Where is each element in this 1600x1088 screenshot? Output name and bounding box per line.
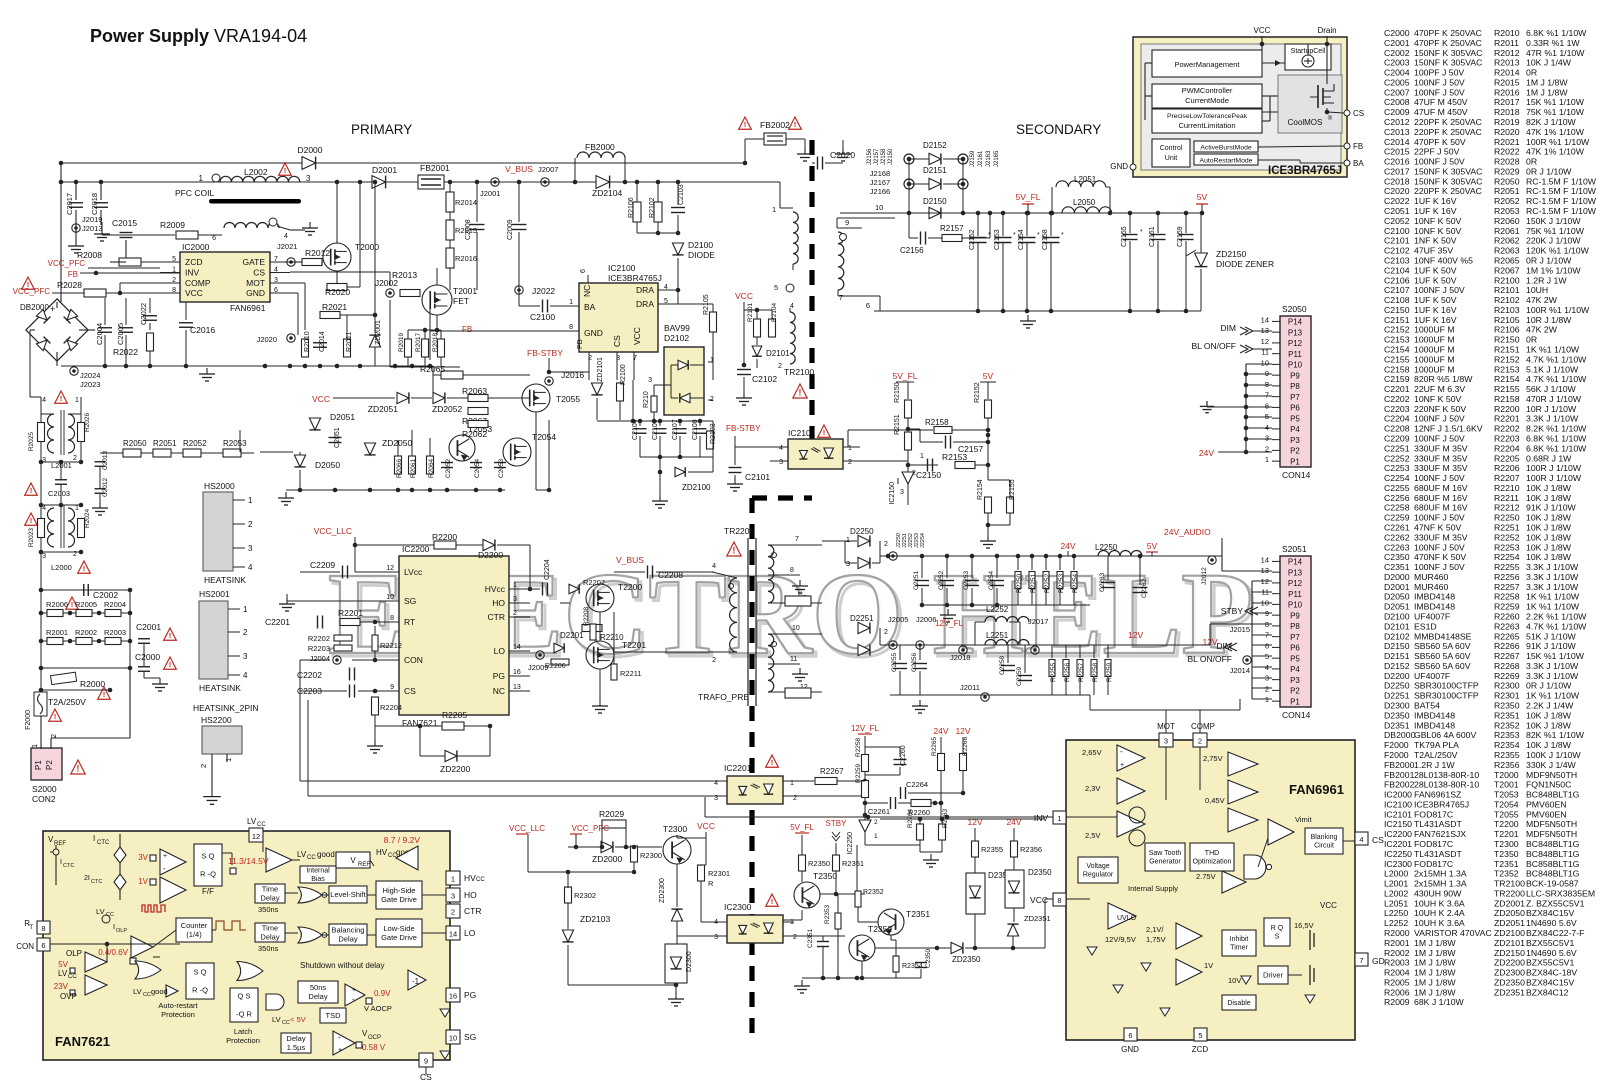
svg-text:28L0138-80R-10: 28L0138-80R-10 <box>1414 780 1479 790</box>
svg-text:IMBD4148: IMBD4148 <box>1414 710 1455 720</box>
svg-text:Blanking: Blanking <box>1311 834 1338 841</box>
svg-text:R2206: R2206 <box>1494 463 1520 473</box>
svg-text:1: 1 <box>513 582 517 589</box>
svg-text:3: 3 <box>779 459 783 466</box>
svg-text:2x15MH 1.3A: 2x15MH 1.3A <box>1414 879 1467 889</box>
svg-text:R2103: R2103 <box>1494 305 1520 315</box>
svg-text:BC848BLT1G: BC848BLT1G <box>1526 869 1580 879</box>
svg-text:1: 1 <box>848 445 852 452</box>
svg-text:C2012: C2012 <box>1384 117 1410 127</box>
svg-text:HS2000: HS2000 <box>204 481 235 491</box>
svg-text:FAN6961: FAN6961 <box>230 303 266 313</box>
svg-text:FAN6961SZ: FAN6961SZ <box>1414 790 1462 800</box>
svg-text:1: 1 <box>1265 695 1269 704</box>
svg-text:C2053: C2053 <box>498 458 505 478</box>
svg-text:P1: P1 <box>34 760 43 770</box>
svg-text:Unit: Unit <box>1165 155 1178 162</box>
svg-text:680UF M 16V: 680UF M 16V <box>1414 483 1468 493</box>
svg-text:GD: GD <box>1372 956 1385 966</box>
svg-text:C2052: C2052 <box>445 458 452 478</box>
svg-text:Disable: Disable <box>1227 1000 1250 1007</box>
svg-text:SB560 5A 60V: SB560 5A 60V <box>1414 641 1471 651</box>
svg-text:Internal: Internal <box>306 868 330 875</box>
svg-text:!: ! <box>30 486 33 495</box>
svg-text:R2012: R2012 <box>305 248 330 258</box>
svg-text:10UH K 3.6A: 10UH K 3.6A <box>1414 918 1465 928</box>
svg-text:470PF K 50V: 470PF K 50V <box>1414 137 1466 147</box>
svg-text:FB2002: FB2002 <box>760 120 790 130</box>
svg-text:R2152: R2152 <box>1494 354 1520 364</box>
svg-text:RC-1.5M F 1/10W: RC-1.5M F 1/10W <box>1526 206 1597 216</box>
svg-text:R2017: R2017 <box>415 332 422 352</box>
svg-text:P13: P13 <box>1288 328 1303 337</box>
svg-text:1M J 1/8W: 1M J 1/8W <box>1414 977 1456 987</box>
svg-text:C2150: C2150 <box>1384 305 1410 315</box>
svg-text:C2350: C2350 <box>925 948 932 968</box>
svg-text:ZD2104: ZD2104 <box>592 188 623 198</box>
svg-text:P5: P5 <box>1290 414 1300 423</box>
svg-text:R2251: R2251 <box>1494 523 1520 533</box>
svg-text:R2255: R2255 <box>1050 662 1057 682</box>
svg-text:R2014: R2014 <box>1494 68 1520 78</box>
svg-text:C2154: C2154 <box>1384 344 1410 354</box>
svg-text:L2251: L2251 <box>986 631 1009 640</box>
svg-text:ZD2050: ZD2050 <box>1494 908 1525 918</box>
svg-text:Regulator: Regulator <box>1083 872 1114 879</box>
svg-text:4: 4 <box>42 397 46 404</box>
svg-text:ZD2001: ZD2001 <box>375 320 382 345</box>
svg-text:C2102: C2102 <box>752 374 777 384</box>
svg-text:D2351: D2351 <box>1384 720 1410 730</box>
svg-text:14: 14 <box>449 930 457 939</box>
svg-text:R2210: R2210 <box>1494 483 1520 493</box>
svg-text:C2022: C2022 <box>1384 196 1410 206</box>
svg-text:R2016: R2016 <box>455 254 477 263</box>
svg-text:4: 4 <box>790 303 794 310</box>
svg-text:!: ! <box>799 388 802 398</box>
svg-text:R2029: R2029 <box>1494 166 1520 176</box>
svg-text:BZX84C15V: BZX84C15V <box>1526 977 1574 987</box>
svg-text:10R J 1/10W: 10R J 1/10W <box>1526 404 1577 414</box>
svg-text:1.5µs: 1.5µs <box>287 1043 306 1052</box>
svg-text:28L0138-80R-10: 28L0138-80R-10 <box>1414 770 1479 780</box>
svg-text:0R J 1/10W: 0R J 1/10W <box>1526 166 1572 176</box>
svg-text:ICE3BR4765J: ICE3BR4765J <box>1268 165 1342 177</box>
svg-text:C2017: C2017 <box>1384 166 1410 176</box>
svg-text:VCC: VCC <box>1320 901 1337 910</box>
svg-text:VCC: VCC <box>312 394 330 404</box>
svg-text:Time: Time <box>262 885 278 894</box>
svg-text:C2253: C2253 <box>1384 463 1410 473</box>
svg-text:4: 4 <box>243 671 248 680</box>
svg-text:BC848BLT1G: BC848BLT1G <box>1526 849 1580 859</box>
svg-text:GBL06 4A 600V: GBL06 4A 600V <box>1414 730 1477 740</box>
svg-text:PG: PG <box>493 671 505 681</box>
svg-text:4.7K %1 1/10W: 4.7K %1 1/10W <box>1526 354 1587 364</box>
svg-text:1: 1 <box>451 875 455 884</box>
svg-text:100NF J 50V: 100NF J 50V <box>1414 157 1465 167</box>
svg-text:S2000: S2000 <box>32 784 57 794</box>
svg-text:R2353: R2353 <box>824 904 831 924</box>
svg-text:SB560 5A 60V: SB560 5A 60V <box>1414 651 1471 661</box>
svg-text:R2300: R2300 <box>640 851 662 860</box>
svg-text:9: 9 <box>845 218 849 227</box>
svg-text:3.3K J 1/10W: 3.3K J 1/10W <box>1526 661 1579 671</box>
svg-text:R2022: R2022 <box>113 347 138 357</box>
svg-text:220PF K 250VAC: 220PF K 250VAC <box>1414 186 1482 196</box>
svg-text:220PF K 250VAC: 220PF K 250VAC <box>1414 117 1482 127</box>
svg-text:C2009: C2009 <box>1384 107 1410 117</box>
svg-text:R2063: R2063 <box>462 386 487 396</box>
svg-text:UF4007F: UF4007F <box>1414 671 1450 681</box>
svg-text:VCC_PFC: VCC_PFC <box>13 287 51 296</box>
svg-text:D2151: D2151 <box>923 166 947 175</box>
svg-text:AutoRestartMode: AutoRestartMode <box>1200 158 1253 165</box>
svg-text:P14: P14 <box>1288 558 1303 567</box>
svg-text:C2263: C2263 <box>1099 572 1106 592</box>
svg-text:100NF J 50V: 100NF J 50V <box>1414 473 1465 483</box>
svg-text:10K J 1/8W: 10K J 1/8W <box>1526 483 1572 493</box>
svg-text:R2201: R2201 <box>1494 414 1520 424</box>
svg-text:C2100: C2100 <box>1384 226 1410 236</box>
svg-text:LV: LV <box>133 987 142 996</box>
svg-text:C2264: C2264 <box>906 780 928 789</box>
svg-text:Balancing: Balancing <box>332 926 365 935</box>
svg-text:1UF K 16V: 1UF K 16V <box>1414 315 1457 325</box>
svg-text:C2004: C2004 <box>1384 68 1410 78</box>
svg-text:+: + <box>50 304 55 314</box>
svg-text:C2151: C2151 <box>1384 315 1410 325</box>
svg-text:R2269: R2269 <box>1494 671 1520 681</box>
svg-text:R2267: R2267 <box>1494 651 1520 661</box>
svg-text:BZX84C12: BZX84C12 <box>1526 987 1569 997</box>
svg-text:R2212: R2212 <box>1494 503 1520 513</box>
svg-text:good: good <box>151 987 168 996</box>
svg-text:PG: PG <box>464 990 476 1000</box>
svg-text:1UF K 16V: 1UF K 16V <box>1414 196 1457 206</box>
svg-text:D2102: D2102 <box>1384 631 1410 641</box>
svg-text:C2204: C2204 <box>544 559 551 580</box>
svg-text:!: ! <box>771 897 774 906</box>
svg-text:T2000: T2000 <box>1494 770 1519 780</box>
svg-text:SBR30100CTFP: SBR30100CTFP <box>1414 691 1479 701</box>
svg-text:IC2300: IC2300 <box>724 902 752 912</box>
svg-text:ZD2101: ZD2101 <box>1494 938 1525 948</box>
svg-text:RC-1.5M F 1/10W: RC-1.5M F 1/10W <box>1526 186 1597 196</box>
svg-text:C2154: C2154 <box>1018 229 1025 250</box>
svg-text:!: ! <box>169 660 172 669</box>
svg-text:R2012: R2012 <box>1494 48 1520 58</box>
svg-text:12: 12 <box>1261 337 1269 346</box>
svg-text:1: 1 <box>243 605 248 614</box>
svg-text:IC2101: IC2101 <box>788 428 816 438</box>
svg-text:R2002: R2002 <box>1384 948 1410 958</box>
svg-text:IC2150: IC2150 <box>1384 819 1412 829</box>
svg-text:C2051: C2051 <box>1384 206 1410 216</box>
svg-text:47NF K 50V: 47NF K 50V <box>1414 523 1462 533</box>
svg-text:16: 16 <box>513 669 521 676</box>
svg-text:R2004: R2004 <box>104 600 126 609</box>
svg-text:R2051: R2051 <box>153 439 177 448</box>
svg-text:4: 4 <box>284 233 288 240</box>
svg-text:10R J 1/8W: 10R J 1/8W <box>1526 315 1572 325</box>
svg-text:R2210: R2210 <box>600 633 624 642</box>
svg-text:R2022: R2022 <box>1494 147 1520 157</box>
svg-text:8: 8 <box>1265 380 1269 389</box>
svg-text:4.7K %1 1/10W: 4.7K %1 1/10W <box>1526 374 1587 384</box>
svg-text:*: * <box>988 232 991 239</box>
svg-text:10UH K 2.4A: 10UH K 2.4A <box>1414 908 1465 918</box>
svg-text:PMV60EN: PMV60EN <box>1526 799 1567 809</box>
svg-text:INV: INV <box>185 268 200 278</box>
svg-text:C2208: C2208 <box>1384 424 1410 434</box>
svg-text:FQN1N50C: FQN1N50C <box>1526 780 1571 790</box>
svg-text:T2200: T2200 <box>1494 819 1519 829</box>
svg-text:C2103: C2103 <box>678 184 685 205</box>
svg-text:C2252: C2252 <box>938 570 945 590</box>
svg-text:C2101: C2101 <box>1384 236 1410 246</box>
svg-text:-1: -1 <box>412 977 420 986</box>
svg-text:DB2000: DB2000 <box>1384 730 1416 740</box>
svg-text:0.58 V: 0.58 V <box>362 1043 386 1052</box>
svg-text:D2251: D2251 <box>1384 691 1410 701</box>
svg-text:Time: Time <box>262 924 278 933</box>
svg-text:*: * <box>1061 232 1064 239</box>
svg-text:L2252: L2252 <box>1384 918 1408 928</box>
svg-text:C2000: C2000 <box>1384 28 1410 38</box>
svg-text:J2014: J2014 <box>1230 666 1250 675</box>
svg-text:J2013: J2013 <box>82 224 102 233</box>
svg-text:ZD2351: ZD2351 <box>1024 914 1051 923</box>
svg-text:T2351: T2351 <box>1494 859 1519 869</box>
svg-text:P2: P2 <box>45 760 54 770</box>
svg-text:C2104: C2104 <box>1384 265 1410 275</box>
svg-text:ZD2101: ZD2101 <box>597 357 604 382</box>
svg-text:14: 14 <box>1261 555 1269 564</box>
svg-text:1K %1 1/10W: 1K %1 1/10W <box>1526 344 1580 354</box>
svg-text:C2204: C2204 <box>1384 414 1410 424</box>
svg-text:7: 7 <box>795 536 799 543</box>
svg-text:!: ! <box>103 690 106 699</box>
svg-text:R2259: R2259 <box>1106 662 1113 682</box>
svg-text:Circuit: Circuit <box>1314 843 1334 850</box>
svg-text:82K %1 1/10W: 82K %1 1/10W <box>1526 730 1585 740</box>
svg-text:FOD817C: FOD817C <box>1414 809 1453 819</box>
svg-text:13: 13 <box>513 684 521 691</box>
svg-text:D2101: D2101 <box>766 349 790 358</box>
svg-text:HEATSINK_2PIN: HEATSINK_2PIN <box>193 703 259 713</box>
svg-text:C2155: C2155 <box>1384 354 1410 364</box>
svg-text:R2017: R2017 <box>1494 97 1520 107</box>
svg-text:12V: 12V <box>955 726 970 736</box>
svg-text:C2203: C2203 <box>1384 404 1410 414</box>
svg-text:220K J 1/10W: 220K J 1/10W <box>1526 236 1581 246</box>
svg-text:100NF J 50V: 100NF J 50V <box>1414 433 1465 443</box>
svg-text:1: 1 <box>32 744 39 748</box>
svg-text:FB2000: FB2000 <box>1384 760 1415 770</box>
svg-text:1000UF M: 1000UF M <box>1414 325 1455 335</box>
svg-text:R -Q: R -Q <box>192 986 208 995</box>
svg-text:1V: 1V <box>138 877 148 886</box>
svg-text:R2265: R2265 <box>931 736 938 756</box>
svg-text:BZX84C-18V: BZX84C-18V <box>1526 968 1577 978</box>
svg-text:15K %1 1/10W: 15K %1 1/10W <box>1526 651 1585 661</box>
svg-text:3: 3 <box>513 596 517 603</box>
svg-text:T2350: T2350 <box>1494 849 1519 859</box>
svg-text:2: 2 <box>513 610 517 617</box>
svg-text:R2020: R2020 <box>1494 127 1520 137</box>
svg-text:R2011: R2011 <box>1494 38 1519 48</box>
svg-text:FAN6961: FAN6961 <box>1289 782 1344 797</box>
svg-text:J2012: J2012 <box>1201 567 1208 585</box>
svg-text:J2017: J2017 <box>1028 617 1048 626</box>
svg-text:HEATSINK: HEATSINK <box>199 683 241 693</box>
svg-text:C2052: C2052 <box>1384 216 1410 226</box>
svg-text:P8: P8 <box>1290 382 1300 391</box>
svg-text:2.75V: 2.75V <box>1196 872 1216 881</box>
svg-text:Gate Drive: Gate Drive <box>381 895 417 904</box>
svg-text:TR2100: TR2100 <box>1494 879 1525 889</box>
svg-text:R2024: R2024 <box>84 508 91 528</box>
svg-text:CTR: CTR <box>464 906 481 916</box>
svg-text:2: 2 <box>451 908 455 917</box>
svg-text:R2203: R2203 <box>1494 433 1520 443</box>
svg-text:47UF M 450V: 47UF M 450V <box>1414 107 1468 117</box>
svg-text:P10: P10 <box>1288 361 1303 370</box>
svg-text:UVLO: UVLO <box>1117 915 1137 922</box>
svg-text:S Q: S Q <box>202 852 215 861</box>
svg-text:Drain: Drain <box>1317 26 1336 35</box>
svg-text:R2301: R2301 <box>708 869 730 878</box>
svg-text:R2153: R2153 <box>942 452 967 462</box>
svg-text:5V_FL: 5V_FL <box>790 823 814 832</box>
svg-text:FAN7621SJX: FAN7621SJX <box>1414 829 1466 839</box>
svg-text:Level-Shift: Level-Shift <box>330 890 366 899</box>
svg-text:MUR460: MUR460 <box>1414 582 1448 592</box>
svg-text:R2251: R2251 <box>1030 573 1037 593</box>
svg-text:TR2200: TR2200 <box>724 526 755 536</box>
svg-text:C2108: C2108 <box>692 419 699 440</box>
svg-text:1: 1 <box>199 174 204 183</box>
svg-text:4: 4 <box>1359 835 1363 844</box>
svg-text:!: ! <box>744 120 747 129</box>
svg-text:82K J 1/10W: 82K J 1/10W <box>1526 117 1577 127</box>
svg-text:1: 1 <box>75 505 79 512</box>
svg-text:!: ! <box>823 428 826 437</box>
svg-text:2,1V/: 2,1V/ <box>1146 925 1164 934</box>
svg-text:10: 10 <box>875 203 883 212</box>
svg-text:ZD2050: ZD2050 <box>382 438 413 448</box>
svg-text:R2258: R2258 <box>1092 662 1099 682</box>
svg-text:5V: 5V <box>58 960 68 969</box>
svg-text:1K %1 1/10W: 1K %1 1/10W <box>1526 592 1580 602</box>
svg-text:470NF K 50V: 470NF K 50V <box>1414 552 1466 562</box>
svg-text:8: 8 <box>790 567 794 574</box>
svg-text:3.3K J 1/10W: 3.3K J 1/10W <box>1526 671 1579 681</box>
svg-text:1M 1% 1/10W: 1M 1% 1/10W <box>1526 265 1581 275</box>
svg-text:GND: GND <box>584 328 603 338</box>
svg-text:R2253: R2253 <box>1494 542 1520 552</box>
svg-text:Gate Drive: Gate Drive <box>381 933 417 942</box>
svg-text:C2003: C2003 <box>48 489 70 498</box>
svg-text:R2260: R2260 <box>1494 612 1520 622</box>
svg-text:INV: INV <box>1034 813 1049 823</box>
svg-text:T2055: T2055 <box>556 394 580 404</box>
svg-text:P2: P2 <box>1290 687 1300 696</box>
svg-text:P3: P3 <box>1290 436 1300 445</box>
svg-text:D2051: D2051 <box>1384 602 1410 612</box>
svg-text:5: 5 <box>1198 1031 1202 1040</box>
svg-text:0.4/0.6V: 0.4/0.6V <box>98 948 128 957</box>
svg-text:CS: CS <box>612 335 622 347</box>
svg-text:R2053: R2053 <box>1494 206 1520 216</box>
svg-text:1M J 1/8W: 1M J 1/8W <box>1414 958 1456 968</box>
svg-text:PMV60EN: PMV60EN <box>1526 809 1567 819</box>
svg-text:BZX84C22-7-F: BZX84C22-7-F <box>1526 928 1584 938</box>
svg-text:R2020: R2020 <box>325 287 350 297</box>
svg-text:R2106: R2106 <box>628 197 635 218</box>
svg-text:DRA: DRA <box>636 299 654 309</box>
svg-text:D2051: D2051 <box>330 412 355 422</box>
svg-text:D2250: D2250 <box>850 527 874 536</box>
svg-text:C2262: C2262 <box>1141 578 1148 598</box>
svg-text:10K J 1/8W: 10K J 1/8W <box>1526 493 1572 503</box>
svg-text:C2351: C2351 <box>1384 562 1410 572</box>
svg-text:D2300: D2300 <box>1384 701 1410 711</box>
svg-text:0,45V: 0,45V <box>1205 796 1225 805</box>
svg-text:J2161: J2161 <box>978 150 984 167</box>
svg-text:VCC: VCC <box>697 821 715 831</box>
svg-text:12: 12 <box>252 832 260 841</box>
svg-text:D2100: D2100 <box>688 240 713 250</box>
svg-text:C2015: C2015 <box>112 218 137 228</box>
svg-text:D2150: D2150 <box>1384 641 1410 651</box>
svg-text:CC: CC <box>307 855 316 861</box>
svg-text:C2159: C2159 <box>1384 374 1410 384</box>
svg-text:2: 2 <box>51 734 58 738</box>
svg-text:HO: HO <box>464 890 477 900</box>
svg-text:3.3K J 1/10W: 3.3K J 1/10W <box>1526 582 1579 592</box>
svg-text:C2261: C2261 <box>1384 523 1410 533</box>
svg-text:FB2002: FB2002 <box>1384 780 1415 790</box>
svg-text:S: S <box>1275 934 1280 941</box>
svg-text:CTR: CTR <box>488 612 505 622</box>
svg-text:V: V <box>350 856 356 865</box>
svg-text:330UF M 35V: 330UF M 35V <box>1414 532 1468 542</box>
svg-text:R2019: R2019 <box>1494 117 1520 127</box>
svg-text:P7: P7 <box>1290 393 1300 402</box>
svg-text:HO: HO <box>492 598 505 608</box>
svg-text:4: 4 <box>779 445 783 452</box>
svg-text:C2022: C2022 <box>139 303 148 325</box>
svg-text:8: 8 <box>390 615 394 622</box>
svg-text:91K J 1/10W: 91K J 1/10W <box>1526 641 1577 651</box>
svg-text:I: I <box>60 859 62 866</box>
svg-text:C2015: C2015 <box>1384 147 1410 157</box>
svg-text:BA: BA <box>1353 159 1364 168</box>
svg-text:1: 1 <box>846 535 850 544</box>
svg-text:2: 2 <box>199 764 208 768</box>
svg-text:820R %5 1/8W: 820R %5 1/8W <box>1414 374 1473 384</box>
svg-text:2: 2 <box>1265 684 1269 693</box>
svg-text:MUR460: MUR460 <box>1414 572 1448 582</box>
svg-text:8.2K %1 1/10W: 8.2K %1 1/10W <box>1526 424 1587 434</box>
svg-text:3V: 3V <box>138 853 148 862</box>
svg-text:HVcc: HVcc <box>485 584 506 594</box>
svg-text:C2013: C2013 <box>1384 127 1410 137</box>
svg-text:0R J 1/10W: 0R J 1/10W <box>1526 681 1572 691</box>
svg-text:R2200: R2200 <box>432 532 457 542</box>
